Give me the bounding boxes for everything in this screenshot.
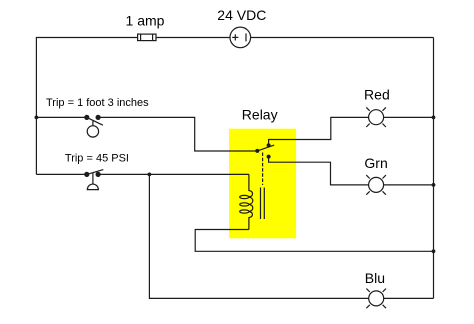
relay contact common pivot <box>255 149 259 153</box>
svg-text:Trip = 45 PSI: Trip = 45 PSI <box>65 152 129 164</box>
svg-text:Trip = 1 foot 3 inches: Trip = 1 foot 3 inches <box>46 97 149 109</box>
svg-text:1 amp: 1 amp <box>126 13 165 29</box>
lamp Grn <box>366 175 386 195</box>
node junction blue-lamp tap <box>148 173 152 177</box>
wire NC contact to Red lamp <box>269 117 369 145</box>
svg-text:Red: Red <box>364 87 390 103</box>
relay NC contact <box>267 143 271 147</box>
wire coil return to bus <box>195 230 433 252</box>
relay coil <box>240 174 253 229</box>
lamp Blu <box>366 289 386 309</box>
wire top rail <box>36 38 433 118</box>
svg-text:Relay: Relay <box>242 106 278 122</box>
node junction Grn at bus <box>432 183 436 187</box>
wire NO contact to Grn lamp <box>269 157 369 185</box>
relay mechanical link (dashed) <box>262 153 264 186</box>
svg-text:Blu: Blu <box>365 270 385 286</box>
relay core bars <box>261 188 265 220</box>
wire float-switch branch <box>36 117 257 151</box>
wire right bus <box>433 38 435 299</box>
level switch Trip = 1 foot 3 inches <box>85 115 103 137</box>
wire pressure-switch branch <box>36 173 249 175</box>
svg-text:Grn: Grn <box>364 155 387 171</box>
relay NO contact <box>267 155 271 159</box>
svg-text:24 VDC: 24 VDC <box>217 7 266 23</box>
node junction coil return at bus <box>432 249 436 253</box>
relay highlight box <box>229 129 296 239</box>
wire left rail lower <box>35 117 37 174</box>
wire Grn lamp to bus <box>384 184 434 186</box>
node junction Red at bus <box>432 116 436 120</box>
lamp Red <box>366 107 386 127</box>
relay contact blade <box>257 145 274 151</box>
battery source 24 VDC <box>230 27 251 48</box>
wire blue branch <box>149 174 433 298</box>
pressure switch Trip = 45 PSI <box>85 170 104 190</box>
node junction at left rail / float branch <box>35 116 39 120</box>
fuse 1 amp <box>138 34 156 41</box>
wire Red lamp to bus <box>384 116 434 118</box>
